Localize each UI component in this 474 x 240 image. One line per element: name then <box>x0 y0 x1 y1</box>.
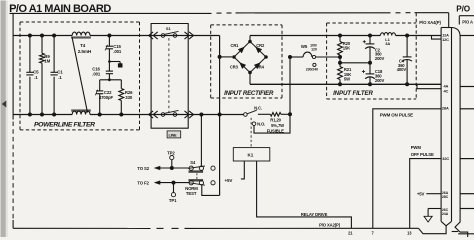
wire K1 coil right / relay drive <box>257 161 352 228</box>
connector XA2 / board bottom right shapes <box>419 226 447 234</box>
svg-text:24A: 24A <box>442 212 449 216</box>
svg-text:K1: K1 <box>248 153 254 158</box>
A1 board outline left edge <box>12 13 14 119</box>
relay K1 common contact <box>244 113 248 117</box>
junction bottom bus / long vertical <box>218 113 222 117</box>
switch S1 top pole contacts <box>161 34 165 38</box>
junction R20 top <box>338 34 342 38</box>
svg-text:INPUT FILTER: INPUT FILTER <box>333 90 373 97</box>
wire bridge DC- drop <box>249 73 251 85</box>
svg-text:CR4: CR4 <box>256 65 265 70</box>
svg-text:CR1: CR1 <box>231 43 240 48</box>
switch S4 row1 contacts <box>189 166 193 170</box>
junction bridge bottom vertex <box>248 71 252 75</box>
junction C22 bottom <box>98 113 102 117</box>
junction R21 bottom <box>338 82 342 86</box>
capacitor C1 <box>51 71 58 73</box>
A1 board outline bottom edge (solid with break) <box>13 227 150 229</box>
junction C5 top <box>28 34 32 38</box>
connector chevrons bottom-right <box>185 111 189 118</box>
transformer T4 top winding <box>72 32 90 35</box>
svg-text:200V: 200V <box>375 56 385 61</box>
wire 4C stub <box>417 84 441 88</box>
switch S1 enclosure <box>151 24 188 36</box>
junction C22/R26 split <box>108 78 111 81</box>
wire C18 to DC- rail <box>369 77 371 84</box>
resistor R9 <box>40 53 45 63</box>
svg-text:TO F2: TO F2 <box>137 181 149 186</box>
connector XA4 plug key notch <box>441 221 451 225</box>
switch S4 row2 contacts <box>189 181 193 185</box>
connector chevrons top-right <box>185 32 189 39</box>
svg-text:PWM: PWM <box>411 145 422 150</box>
wire C15-C16 column <box>108 36 110 47</box>
relay K1 NO contact <box>252 122 256 126</box>
capacitor C15 <box>106 45 113 47</box>
margin arrow marker <box>2 101 7 108</box>
jumper W5 (100/120) <box>303 52 312 57</box>
wire R26 branch <box>120 80 122 89</box>
wire A4 side stub 32C row <box>460 158 474 160</box>
connector chevrons bottom-left <box>149 111 153 118</box>
svg-text:POWERLINE FILTER: POWERLINE FILTER <box>34 122 95 129</box>
wire S4 row1 feed <box>200 115 202 167</box>
wire A4 side stub 26A row <box>460 193 474 195</box>
junction bridge top vertex <box>248 40 252 44</box>
connector chevrons top-left <box>149 32 153 39</box>
svg-text:+5V: +5V <box>417 192 425 197</box>
switch S4 row2 position bar <box>189 179 204 181</box>
wire PWM ON PULSE <box>373 109 441 229</box>
junction C4 top <box>405 34 409 38</box>
wire to chassis tab <box>109 61 120 63</box>
svg-text:P/O A: P/O A <box>462 20 473 25</box>
svg-text:5W: 5W <box>344 77 350 82</box>
svg-text:N.O.: N.O. <box>257 122 265 127</box>
diode CR2 <box>255 47 262 54</box>
svg-text:200V: 200V <box>375 78 385 83</box>
wire W5 node to jumper <box>290 56 303 58</box>
svg-text:28A: 28A <box>442 106 449 111</box>
junction C5 bottom <box>28 113 32 117</box>
svg-text:S4: S4 <box>190 160 196 165</box>
junction C1 bottom <box>52 113 56 117</box>
svg-text:15K: 15K <box>343 46 350 51</box>
wire 12C stub <box>432 36 442 40</box>
A1 board outline top edge (solid with break) <box>10 12 212 14</box>
wire NO bypass <box>254 114 290 133</box>
wire DC+ rail <box>250 35 380 37</box>
label LINE (boxed) <box>167 131 181 138</box>
input rectifier enclosure (dashed) <box>211 24 282 26</box>
svg-text:.001: .001 <box>92 71 101 76</box>
svg-text:T4: T4 <box>80 43 86 48</box>
switch S1 mechanical link <box>168 38 170 112</box>
svg-text:R1,20: R1,20 <box>270 118 281 123</box>
junction midrail left <box>338 61 342 65</box>
svg-text:W5: W5 <box>301 44 308 49</box>
junction C2 top <box>368 34 372 38</box>
junction R20/W5 <box>338 55 342 59</box>
svg-text:INPUT RECTIFIER: INPUT RECTIFIER <box>224 90 274 97</box>
wire junction to W5 node <box>289 57 291 114</box>
signal arrow TO F2 <box>154 181 160 185</box>
switch S4 mechanical link <box>196 173 198 179</box>
switch S4 spare contact row1 <box>211 166 215 170</box>
wire AC1 feed corner <box>219 36 221 115</box>
svg-text:PWM ON PULSE: PWM ON PULSE <box>380 112 413 117</box>
svg-text:OFF PULSE: OFF PULSE <box>411 152 434 157</box>
junction TP2 <box>170 166 174 170</box>
input filter enclosure (dashed) <box>327 22 417 24</box>
wire S4 row2 feed U-turn <box>202 185 220 196</box>
wire ground to 26C/24A <box>428 208 441 210</box>
switch S1 bottom pole blade <box>164 110 178 113</box>
resistor R1 <box>270 113 281 117</box>
svg-text:330: 330 <box>125 95 133 100</box>
svg-text:TEST: TEST <box>186 191 197 196</box>
svg-text:4C: 4C <box>444 89 449 94</box>
svg-text:P/O: P/O <box>456 5 470 14</box>
inductor L1 <box>380 33 395 36</box>
capacitor C16 <box>106 70 113 72</box>
junction R9 bottom <box>40 113 44 117</box>
wire TO S2 line <box>159 167 190 169</box>
transformer T4 bottom winding <box>72 111 90 114</box>
junction R9 top <box>40 34 44 38</box>
switch S1 top pole blade <box>164 31 178 34</box>
switch S4 spare contact row2 <box>211 181 215 185</box>
junction S4 row1 feed <box>199 113 203 117</box>
capacitor C22 <box>96 90 103 92</box>
svg-text:CR2: CR2 <box>256 43 265 48</box>
A1 board outline right dashed edge / input-filter box right edge <box>415 13 417 99</box>
svg-text:5%,7W: 5%,7W <box>271 123 284 128</box>
wire top AC bus <box>13 35 72 37</box>
wire bottom AC bus <box>13 114 72 116</box>
wire C2 to midrail <box>369 47 371 63</box>
diode CR3 <box>239 62 246 69</box>
junction chassis branch <box>108 60 111 63</box>
wire A4 side stub 28A row <box>460 108 474 110</box>
junction C1 top <box>52 34 56 38</box>
wire bridge DC+ riser <box>249 36 251 42</box>
wire doubler midrail <box>340 62 370 64</box>
junction TP1 <box>172 181 176 185</box>
switch S4 row1 position bar <box>189 170 204 172</box>
svg-text:TP2: TP2 <box>167 150 175 155</box>
ground symbol <box>427 209 429 217</box>
junction bridge AC1 tap <box>218 55 222 59</box>
svg-text:230/240: 230/240 <box>306 68 318 72</box>
wire to bridge left vertex <box>220 56 233 58</box>
wire TO F2 line <box>159 182 190 184</box>
junction bridge right vertex <box>264 55 268 59</box>
diode CR1 <box>238 47 245 54</box>
diode CR4 <box>254 62 261 69</box>
svg-text:28C: 28C <box>442 195 449 199</box>
wire C22 branch <box>99 80 101 91</box>
junction R1 output <box>288 112 292 116</box>
wire split bar <box>100 79 122 81</box>
capacitor C5 <box>26 71 33 73</box>
relay K1 coil box <box>233 148 269 161</box>
wire C5 branch <box>29 36 31 73</box>
label P/O A4 bracket <box>459 15 474 17</box>
svg-text:4700pF: 4700pF <box>99 95 114 100</box>
svg-text:1M: 1M <box>44 59 50 64</box>
wire W5 to filter <box>316 56 340 58</box>
capacitor C4 <box>403 56 412 58</box>
svg-text:12C: 12C <box>442 37 449 42</box>
junction bridge left vertex <box>232 55 236 59</box>
wire PWM OFF PULSE <box>410 159 441 229</box>
svg-text:LINE: LINE <box>169 133 178 138</box>
junction R26 bottom <box>119 113 123 117</box>
svg-text:P/O XA2(P): P/O XA2(P) <box>319 222 341 227</box>
powerline filter enclosure (dashed) <box>20 21 140 23</box>
test point TP1 <box>173 183 175 193</box>
svg-text:N.C.: N.C. <box>254 105 262 110</box>
grey binder margin strip <box>1 1 8 238</box>
switch S4 row2 blade <box>188 183 205 186</box>
svg-text:400V: 400V <box>397 67 407 72</box>
wire +5V to 26A/28C <box>426 193 441 195</box>
jumper alternate post 230/240 <box>313 63 316 66</box>
wire A4 side stub 4A row <box>460 86 474 88</box>
svg-text:3A: 3A <box>385 41 390 46</box>
capacitor C18 (polarised) <box>366 73 375 75</box>
switch S4 row1 blade <box>188 166 205 168</box>
wire R20-R21 link <box>339 57 341 67</box>
transformer T4 core diagonal <box>72 37 88 113</box>
resistor R20 <box>339 36 341 42</box>
wire C4 bottom lead <box>406 59 408 84</box>
chassis ground tab <box>118 63 123 67</box>
wire long vertical to S4 feed <box>219 115 221 196</box>
wire DC- rail <box>250 83 441 85</box>
resistor R21 <box>338 67 343 80</box>
svg-text:+5V: +5V <box>225 178 233 183</box>
junction C4 bottom <box>405 82 409 86</box>
junction C18 bottom <box>368 82 372 86</box>
wire C2 lead <box>369 36 371 44</box>
wire R1 to junction <box>281 113 290 115</box>
capacitor C2 (polarised) <box>366 43 375 45</box>
svg-text:CR3: CR3 <box>230 65 239 70</box>
connector A4 board edge <box>452 28 468 238</box>
svg-text:120: 120 <box>311 48 317 52</box>
svg-text:32C: 32C <box>442 156 449 161</box>
wire A4 side stub 26C row <box>460 208 474 210</box>
svg-text:2.5mH: 2.5mH <box>78 49 92 54</box>
svg-text:RELAY DRIVE: RELAY DRIVE <box>301 212 328 217</box>
switch S1 bottom pole contacts <box>161 113 165 117</box>
label P/O XA4(P) bracket <box>423 12 449 14</box>
signal arrow TO S2 <box>154 166 160 170</box>
junction C2 bottom / midrail <box>368 61 372 65</box>
wire K1 coil left to +5V <box>241 161 244 179</box>
svg-text:P/O XA4(P): P/O XA4(P) <box>419 20 441 25</box>
wire C4 top lead <box>406 36 408 57</box>
wire C18 lead <box>369 63 371 74</box>
junction C15 top <box>107 34 111 38</box>
wire 12A feed <box>407 35 441 37</box>
resistor R26 <box>119 89 124 101</box>
wire NC to R1 <box>258 113 270 115</box>
svg-text:.001: .001 <box>113 49 122 54</box>
wire R9 branch <box>41 36 43 54</box>
relay K1 blade to NC <box>247 110 257 114</box>
jumper W5 right post <box>312 55 315 58</box>
wire C1 branch <box>53 36 55 73</box>
junction W5 node <box>288 55 292 59</box>
connector XA4 plug body <box>440 28 442 222</box>
svg-text:TO S2: TO S2 <box>137 166 149 171</box>
svg-text:TP1: TP1 <box>169 198 177 203</box>
bridge diamond <box>234 42 266 73</box>
test point TP2 <box>170 156 174 160</box>
wire A4 side stub 12A row <box>460 35 474 37</box>
relay K1 actuation link <box>250 118 252 148</box>
